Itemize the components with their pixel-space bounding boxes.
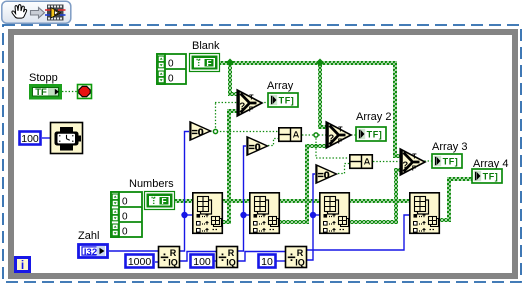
svg-text:IQ: IQ (295, 258, 305, 268)
wire: Replace3 result up to Select3 F input (350, 168, 401, 224)
label Zahl (78, 230, 99, 242)
wire: rail drop to Select2 T input (318, 61, 328, 129)
numeric constant 100 (191, 255, 214, 269)
iteration terminal i (16, 258, 30, 273)
And node 2 (350, 155, 373, 169)
wire: Replace4 result to Array 4 indicator (440, 177, 472, 222)
Replace Array Subset node 4 (410, 193, 440, 234)
wire: Stopp terminal to stop button (bool dotted) (62, 91, 77, 93)
svg-text:0: 0 (168, 74, 174, 85)
wire: Select2 output to Array 2 indicator (dotted) (351, 134, 357, 136)
Blank array constant (2 elements of 0) (157, 54, 186, 85)
svg-text:IQ: IQ (226, 258, 236, 268)
svg-text:IQ: IQ (168, 258, 178, 268)
Numbers array constant (3 elements of 0) (111, 192, 142, 238)
svg-text:I32: I32 (84, 247, 97, 258)
svg-text:0: 0 (122, 212, 128, 223)
Quotient & Remainder QR2 (217, 247, 238, 268)
Select node 1 (237, 90, 262, 116)
wire: Blank constant to top rail (bool array) (219, 61, 397, 65)
svg-text:F: F (206, 58, 211, 68)
label Array 2 (356, 111, 391, 123)
wire: Replace2 result up to Select2 F input (279, 144, 326, 224)
label Stopp (29, 72, 58, 84)
wire: And2 output to Select3 selector (dotted) (373, 161, 400, 163)
junction diamond at rail x314 (316, 59, 324, 67)
label Array 4 (473, 158, 508, 170)
wire: QR1 quotient to QR2 x input (blue) (180, 252, 216, 262)
svg-text:Array: Array (267, 80, 294, 92)
svg-text:Zahl: Zahl (78, 230, 99, 242)
wire: Numbers constant to Replace1 (bool array) (174, 199, 194, 203)
junction diamond at rail x230 (226, 59, 234, 67)
Quotient & Remainder QR3 (286, 247, 307, 268)
Replace Array Subset node 3 (320, 193, 350, 234)
numeric constant 100 (wait) (20, 132, 41, 146)
wire: 100 constant to QR2 y input (blue) (214, 260, 216, 262)
Replace Array Subset node 1 (193, 193, 223, 234)
svg-text:i: i (21, 258, 24, 272)
wire: rail drop to Select1 T input (228, 61, 237, 96)
And node 1 (279, 128, 302, 142)
label Blank (192, 40, 220, 52)
svg-text:Array 2: Array 2 (356, 111, 391, 123)
svg-text:1000: 1000 (128, 256, 152, 268)
svg-text:Numbers: Numbers (129, 178, 174, 190)
wire: QR2 quotient to QR3 x input (blue) (238, 252, 285, 262)
svg-text:R: R (297, 248, 304, 258)
Equal To 0? node 1 (190, 122, 211, 140)
Array 4 boolean array indicator (472, 169, 502, 183)
wire: QR3 quotient up to EqualZero3, tee to Replace3 index (blue) (307, 174, 320, 260)
label Array 3 (432, 141, 467, 153)
wire: EqualZero1 output branch (dotted) (210, 103, 279, 134)
wire: Replace1 to Replace2 array chain (222, 199, 250, 203)
wire: Zahl I32 to QR1 x input (blue) (109, 250, 158, 252)
Blank false boolean constant (190, 54, 220, 72)
svg-text:TF: TF (35, 87, 47, 98)
svg-text:0: 0 (122, 197, 128, 208)
wire: Replace2 to Replace3 array chain (279, 199, 320, 203)
Array boolean array indicator (268, 93, 298, 107)
wire: Replace1 result up to Select1 F input (222, 109, 237, 224)
numeric constant 10 (259, 255, 276, 269)
Zahl I32 control terminal (79, 245, 108, 258)
Quotient & Remainder QR1 (159, 247, 180, 268)
wire: 10 constant to QR3 y input (blue) (276, 260, 285, 262)
svg-text:0: 0 (168, 59, 174, 70)
Equal To 0? node 2 (247, 137, 268, 155)
wire: EqualZero3 output to And2 lower input (dotted) (338, 164, 349, 174)
loop condition stop button (78, 85, 92, 99)
wire: QR1 remainder up to EqualZero1, tee to Replace1 index (blue) (180, 132, 194, 252)
Stopp boolean control terminal TF (31, 86, 61, 99)
Array 2 boolean array indicator (356, 127, 386, 141)
label Array (267, 80, 294, 92)
toolbar VI run icon (45, 5, 66, 21)
wire: 100 constant to Wait node (blue) (42, 137, 50, 139)
wire: Select3 output to Array 3 indicator (dotted) (421, 160, 432, 162)
svg-text:100: 100 (193, 256, 211, 268)
wire: Replace3 to Replace4 array chain (350, 199, 410, 203)
wire: rail corner drop to Select3 T input (393, 61, 401, 158)
wire: 1000 constant to QR1 y input (blue) (155, 261, 158, 263)
svg-text:F: F (161, 196, 166, 206)
svg-text:0: 0 (122, 227, 128, 238)
Select node 3 (400, 149, 425, 175)
tools palette toolbar (2, 1, 71, 23)
svg-text:100: 100 (21, 133, 39, 145)
svg-text:R: R (228, 248, 235, 258)
wire: And1 output branch to Select2 and And2 (dotted) (302, 133, 349, 158)
toolbar hand tool icon (12, 5, 27, 19)
Replace Array Subset node 2 (250, 193, 279, 234)
svg-text:Blank: Blank (192, 40, 220, 52)
svg-text:R: R (170, 248, 177, 258)
svg-text:Stopp: Stopp (29, 72, 58, 84)
svg-text:Array 3: Array 3 (432, 141, 467, 153)
Equal To 0? node 3 (316, 165, 337, 183)
Numbers false boolean constant (145, 192, 175, 210)
numeric constant 1000 (126, 255, 154, 269)
wire: Select1 output to Array indicator (dotted) (261, 102, 268, 104)
Select node 2 (326, 122, 351, 148)
toolbar arrow icon (31, 8, 45, 19)
wire: EqualZero2 output to And1 lower input (dotted) (268, 139, 279, 146)
Array 3 boolean array indicator (432, 154, 462, 168)
Wait (ms) node (51, 123, 83, 154)
wire: QR2 remainder up to EqualZero2, tee to Replace2 index (blue) (238, 146, 250, 251)
svg-text:10: 10 (261, 256, 273, 268)
wire: QR3 remainder right and up to Replace4 index (blue) (307, 215, 410, 250)
label Numbers (129, 178, 174, 190)
